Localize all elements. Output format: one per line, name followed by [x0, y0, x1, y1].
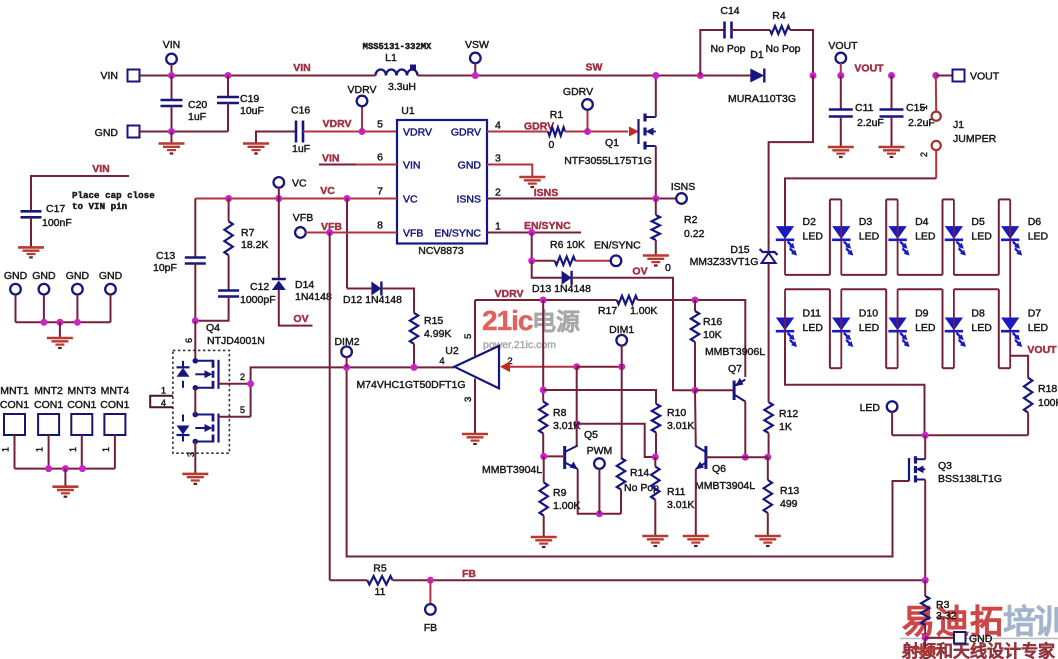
svg-text:L1: L1: [385, 52, 397, 64]
svg-text:VSW: VSW: [465, 39, 489, 51]
U1 pin name EN/SYNC: [434, 228, 481, 240]
arrow into Q1 gate: [629, 127, 639, 137]
wire C14 branch left: [700, 30, 724, 76]
label D11 LED: [803, 322, 824, 334]
svg-text:VIN: VIN: [92, 163, 110, 175]
testpoint GND2: [39, 284, 50, 295]
wire D15 to R12: [768, 264, 770, 403]
label DIM2: [334, 336, 359, 348]
resistor R14: [617, 458, 625, 490]
wire VC tp stub: [278, 187, 280, 198]
label C19: [240, 93, 259, 105]
U1 pin number 4: [495, 120, 501, 132]
svg-text:ISNS: ISNS: [671, 181, 696, 193]
MNT4 pin number: [101, 447, 111, 452]
ground at C16: [243, 144, 269, 154]
svg-text:GND: GND: [4, 270, 28, 282]
label GND tp3: [66, 270, 90, 282]
label C20 value: [188, 111, 206, 123]
net label EN/SYNC: [524, 220, 571, 232]
label VFB testpoint: [293, 212, 313, 224]
label R6: [550, 239, 585, 251]
U1 pin number 8: [377, 220, 383, 232]
label R5: [373, 563, 387, 575]
label D7: [1028, 308, 1042, 320]
resistor R9: [540, 482, 548, 515]
label MNT3: [68, 385, 97, 397]
wire to R6: [532, 233, 555, 261]
wire row1 top bar 0: [830, 198, 841, 200]
U1 pin number 5: [377, 119, 383, 131]
wire C13 top: [194, 199, 196, 258]
label CON1 4: [100, 399, 129, 411]
label D15 part: [690, 256, 759, 268]
junction C13-Q4: [192, 317, 199, 324]
testpoint GND3: [72, 284, 83, 295]
wire C16 gnd stub: [256, 132, 296, 143]
svg-text:GND: GND: [32, 270, 56, 282]
svg-text:GDRV: GDRV: [563, 86, 593, 98]
svg-text:3: 3: [463, 397, 474, 402]
U2 pin5 number: [463, 334, 474, 339]
wire OV route: [571, 278, 695, 391]
svg-text:D8: D8: [971, 308, 985, 320]
capacitor C12: [218, 291, 239, 297]
svg-text:1.00K: 1.00K: [630, 305, 657, 317]
wire row1 cathode D2: [784, 240, 786, 275]
U1 pin name VDRV: [403, 127, 432, 139]
label D4: [915, 216, 929, 228]
wire VDRV line left: [475, 299, 617, 301]
net label VDRV mid: [495, 288, 524, 300]
svg-text:No Pop: No Pop: [765, 43, 800, 55]
svg-text:GDRV: GDRV: [451, 127, 481, 139]
junction DIM1: [618, 363, 625, 370]
resistor R2: [652, 215, 660, 240]
junction R12-R13: [764, 454, 771, 461]
wire row1 anode D5: [953, 199, 955, 238]
label D6 LED: [1028, 231, 1049, 243]
capacitor C20: [161, 100, 183, 106]
svg-text:VOUT: VOUT: [970, 71, 1000, 83]
label R8 value: [553, 420, 580, 432]
svg-text:2: 2: [919, 152, 929, 157]
svg-text:Q5: Q5: [584, 429, 598, 441]
svg-text:3.3uH: 3.3uH: [388, 81, 416, 93]
label C14 nopop: [710, 43, 745, 55]
LED D4: [888, 227, 909, 256]
label C11 value: [857, 117, 884, 129]
wire R12 bottom: [768, 433, 770, 457]
svg-text:FB: FB: [424, 622, 437, 634]
wire row2 bottom bar 2: [943, 367, 954, 369]
label D2: [803, 216, 817, 228]
wire FB tp stub: [429, 580, 431, 604]
svg-text:R13: R13: [780, 485, 799, 497]
label L1 value: [388, 81, 416, 93]
LED D10: [832, 318, 853, 347]
svg-text:D13 1N4148: D13 1N4148: [532, 283, 591, 295]
label R15 value: [424, 328, 451, 340]
svg-text:GND: GND: [95, 127, 119, 139]
resistor R11: [651, 467, 659, 500]
label D15: [730, 244, 749, 256]
ground below GND bus: [47, 338, 73, 348]
svg-text:18.2K: 18.2K: [241, 239, 268, 251]
label R12: [779, 408, 798, 420]
junction D1-D15: [810, 72, 817, 79]
svg-text:3: 3: [495, 153, 501, 165]
wire Q7 base: [695, 389, 733, 391]
U2 pin4 number: [439, 356, 444, 367]
label C20: [188, 99, 207, 111]
wire VSW stub: [474, 63, 476, 76]
net label VIN left: [92, 163, 110, 175]
svg-text:MNT1: MNT1: [0, 385, 29, 397]
wire row1 upleg 2: [942, 199, 944, 275]
svg-text:LED: LED: [803, 322, 824, 334]
svg-text:C16: C16: [291, 105, 310, 117]
ground below Q6: [683, 536, 709, 546]
watermark rule: [900, 638, 1058, 640]
label R1 value: [548, 139, 554, 151]
label VIN testpoint: [163, 39, 181, 51]
wire PWM stub: [598, 469, 600, 514]
label MNT2: [34, 385, 63, 397]
net label VDRV pin5: [323, 118, 352, 130]
label J1: [953, 119, 964, 131]
net label VFB: [321, 221, 342, 233]
junction GND rail: [168, 128, 175, 135]
wire row2 top bar 1: [841, 288, 886, 290]
capacitor C19: [217, 97, 239, 103]
label D8: [971, 308, 985, 320]
ground below Q4: [182, 474, 208, 484]
wire VIN tp stub: [171, 64, 173, 76]
label MNT4: [101, 385, 130, 397]
svg-text:Q7: Q7: [728, 363, 742, 375]
testpoint GND1: [10, 284, 21, 295]
junction mnt bus 1: [45, 465, 52, 472]
wire row2 bottom bar 0: [830, 367, 841, 369]
transistor Q1 MOSFET: [639, 114, 656, 150]
LED D6: [1001, 227, 1022, 256]
label C16: [291, 105, 310, 117]
wire row1 cathode D4: [897, 240, 899, 275]
transistor Q6: [696, 446, 706, 470]
junction R8-lineB: [540, 387, 547, 394]
wire to D13: [532, 261, 562, 278]
svg-text:电源: 电源: [532, 309, 580, 336]
wire R13 bottom: [767, 513, 769, 536]
svg-text:C11: C11: [855, 102, 874, 114]
svg-text:D5: D5: [971, 216, 985, 228]
Q4 pin5 number: [240, 405, 245, 415]
label Q5 part: [482, 464, 542, 476]
label Q1: [605, 137, 619, 149]
wire R8 bottom: [542, 433, 544, 456]
wire R16 top: [694, 300, 696, 311]
resistor R16: [691, 311, 699, 342]
wire Q5 collector drop: [576, 367, 578, 447]
resistor R15: [410, 313, 418, 344]
svg-text:6: 6: [184, 338, 194, 343]
svg-text:GND: GND: [458, 160, 482, 172]
svg-text:VC: VC: [320, 185, 335, 197]
junction mnt bus 3: [79, 465, 86, 472]
Q4 dotted box: [173, 350, 230, 453]
svg-text:4: 4: [161, 398, 166, 408]
svg-text:LED: LED: [971, 322, 992, 334]
label D6: [1028, 216, 1042, 228]
svg-text:10pF: 10pF: [153, 262, 177, 274]
wire row2 cathode D8: [953, 332, 955, 369]
label D7 LED: [1028, 322, 1049, 334]
wire LED tp stub: [891, 412, 893, 436]
junction Q6 base-Q7: [742, 454, 749, 461]
wire lineB: [543, 390, 656, 404]
wire Q6 base: [706, 456, 768, 458]
wire R11 top: [654, 457, 656, 467]
resistor R1: [548, 127, 565, 135]
note place cap 2: [72, 201, 127, 212]
svg-text:J1: J1: [953, 119, 964, 131]
net label VOUT: [854, 63, 884, 75]
label D10 LED: [859, 322, 880, 334]
label R4 nopop: [765, 43, 800, 55]
label C13 value: [153, 262, 177, 274]
junction R3-GND: [922, 634, 929, 641]
diode D12: [371, 282, 381, 296]
wire D12 to R15: [382, 289, 415, 313]
junction EN/SYNC: [528, 229, 535, 236]
MNT1 pin number: [1, 447, 11, 452]
svg-text:VDRV: VDRV: [323, 118, 352, 130]
svg-text:Q3: Q3: [938, 460, 952, 472]
label D9 LED: [915, 322, 936, 334]
svg-text:R10: R10: [667, 407, 686, 419]
wire R10 bottom: [655, 432, 657, 457]
wire R6 to tp: [575, 260, 611, 262]
svg-text:C13: C13: [156, 250, 175, 262]
U1 pin number 1: [495, 221, 501, 233]
label EN/SYNC testpoint: [594, 240, 641, 252]
wire MNT2 pin: [48, 435, 50, 469]
svg-text:SW: SW: [586, 62, 603, 74]
svg-text:4: 4: [495, 120, 501, 132]
junction PWM: [596, 510, 603, 517]
ground U1 pin3: [519, 177, 545, 187]
label R10 value: [667, 420, 694, 432]
label R18 value: [1038, 397, 1058, 409]
label R15: [424, 315, 443, 327]
watermark yiditu: [902, 603, 1058, 640]
LED D2: [776, 227, 797, 256]
svg-text:D11: D11: [803, 308, 822, 320]
junction gnd bus 3: [74, 319, 81, 326]
testpoint VSW: [470, 53, 481, 64]
label R8: [553, 407, 567, 419]
junction VFB-FB: [326, 229, 333, 236]
ground below R9: [531, 537, 557, 547]
wire R8 chain top: [542, 300, 544, 402]
svg-text:100nF: 100nF: [42, 217, 72, 229]
junction Q4 pins: [247, 380, 254, 387]
svg-text:MNT4: MNT4: [101, 385, 130, 397]
svg-text:EN/SYNC: EN/SYNC: [434, 228, 481, 240]
label R18: [1038, 383, 1057, 395]
wire row1 upleg 1: [885, 199, 887, 275]
label D13: [532, 283, 591, 295]
wire VIN rail: [140, 75, 376, 77]
label R2: [684, 214, 698, 226]
LED D3: [832, 227, 853, 256]
svg-text:10uF: 10uF: [240, 105, 264, 117]
svg-text:D6: D6: [1028, 216, 1042, 228]
label C13: [156, 250, 175, 262]
label D2 LED: [803, 231, 824, 243]
capacitor C15: [880, 110, 904, 117]
label D3: [859, 216, 873, 228]
label D3 LED: [859, 231, 880, 243]
svg-text:R5: R5: [373, 563, 387, 575]
svg-text:D7: D7: [1028, 308, 1042, 320]
svg-text:8: 8: [377, 220, 383, 232]
svg-text:VOUT: VOUT: [854, 63, 884, 75]
net label VOUT right: [1027, 344, 1057, 356]
label R5 value: [375, 586, 386, 598]
svg-text:OV: OV: [632, 266, 647, 278]
diode D13: [562, 271, 572, 285]
svg-text:1uF: 1uF: [188, 111, 206, 123]
junction ISNS-Q1: [652, 195, 659, 202]
svg-text:Q1: Q1: [605, 137, 619, 149]
wire R1 to gate: [565, 131, 628, 133]
label D12: [343, 294, 402, 306]
label R16 value: [703, 329, 722, 341]
U1 pin number 3: [495, 153, 501, 165]
junction VC-D12: [344, 195, 351, 202]
wire FB left: [330, 579, 368, 581]
wire row1 top bar 2: [943, 198, 954, 200]
junction R6 row: [528, 257, 535, 264]
wire U2 pin5: [474, 300, 476, 357]
wire VFB: [305, 232, 397, 234]
wire DIM2 stub: [346, 357, 348, 368]
IC U1 box: [397, 120, 487, 244]
svg-text:D2: D2: [803, 216, 817, 228]
wire R7-C12: [228, 255, 230, 290]
U1 pin number 2: [495, 187, 501, 199]
net label OV left: [293, 313, 308, 325]
wire R2 bottom: [655, 240, 657, 255]
label R4: [772, 10, 786, 22]
svg-text:R11: R11: [667, 486, 686, 498]
wire MNT bus: [15, 468, 115, 470]
svg-text:R1: R1: [550, 109, 564, 121]
capacitor C13: [185, 258, 206, 264]
wire row1 upleg 3: [998, 199, 1000, 275]
wire DIM1 stub: [621, 345, 623, 367]
label VIN port: [100, 70, 118, 82]
junction VDRV-R16: [692, 297, 699, 304]
svg-text:D10: D10: [859, 308, 878, 320]
LED D8: [945, 318, 966, 347]
resistor R18: [1024, 378, 1032, 413]
resistor R3: [921, 596, 929, 625]
junction OV-Q7base: [692, 387, 699, 394]
wire FB line: [393, 579, 926, 581]
wire row2 bottom bar 3: [999, 367, 1010, 369]
zener D15: [760, 249, 778, 263]
svg-text:PWM: PWM: [587, 445, 613, 457]
wire row1 anode D3: [840, 199, 842, 238]
wire Q7 collector: [744, 402, 746, 458]
label R13 value: [780, 498, 798, 510]
svg-text:NTJD4001N: NTJD4001N: [207, 335, 265, 347]
resistor R17: [617, 296, 638, 304]
U1 pin number 7: [377, 186, 383, 198]
wire J1 pin2 down: [935, 150, 937, 178]
testpoint VDRV: [357, 96, 368, 107]
wire D11 cathode route: [785, 332, 925, 436]
wire to VOUT port: [936, 75, 953, 77]
label D14 value: [295, 291, 332, 303]
wire Q1 drain: [655, 76, 657, 118]
junction VIN-C19: [225, 72, 232, 79]
label R2 value: [684, 228, 705, 240]
label D8 LED: [971, 322, 992, 334]
wire Q3 gate route: [347, 367, 909, 557]
Q4 pin1 number: [161, 386, 166, 396]
U1 pin name VIN: [403, 160, 421, 172]
capacitor C16: [296, 121, 303, 143]
capacitor C17: [21, 211, 42, 217]
svg-text:3.01K: 3.01K: [667, 499, 694, 511]
wire MNT4 pin: [114, 435, 116, 469]
svg-text:MMBT3906L: MMBT3906L: [705, 346, 765, 358]
label L1: [385, 52, 397, 64]
label U2 part: [356, 379, 465, 391]
Q4 pin3 number: [186, 452, 196, 457]
svg-text:VC: VC: [292, 178, 307, 190]
label NCV8873: [418, 245, 464, 257]
ground below C20: [159, 144, 185, 154]
svg-text:U1: U1: [401, 105, 415, 117]
wire VDRV tp stub: [361, 106, 363, 132]
label U2: [445, 345, 459, 357]
svg-text:3.01K: 3.01K: [553, 420, 580, 432]
junction VIN-C20: [168, 72, 175, 79]
net label GDRV: [524, 121, 554, 133]
label R11: [667, 486, 686, 498]
U1 pin number 6: [377, 152, 383, 164]
wire row2 cathode D9: [897, 332, 899, 369]
svg-text:VFB: VFB: [293, 212, 313, 224]
wire row2 top bar 2: [898, 288, 943, 290]
wire D14 to OV stub: [279, 290, 313, 326]
testpoint ISNS: [676, 193, 687, 204]
svg-text:VFB: VFB: [403, 228, 423, 240]
label R12 value: [779, 421, 792, 433]
svg-text:CON1: CON1: [100, 399, 129, 411]
wire row2 anode D9: [897, 289, 899, 330]
resistor R12: [764, 402, 772, 433]
wire LED- rail: [892, 434, 1028, 436]
wire R9 top: [543, 456, 545, 482]
svg-text:LED: LED: [803, 231, 824, 243]
svg-text:DIM2: DIM2: [334, 336, 359, 348]
